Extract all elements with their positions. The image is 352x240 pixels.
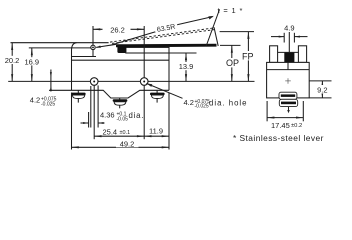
body seam line [267, 69, 310, 71]
svg-text:25.4: 25.4 [103, 127, 118, 136]
lever tip travel line [214, 27, 218, 46]
dim FP [247, 32, 249, 82]
lever left bent end corner arc [72, 43, 77, 51]
text 63.5R [154, 19, 179, 34]
plunger end (black) [284, 53, 294, 63]
text 9.2 [316, 85, 330, 94]
svg-text:20.2: 20.2 [5, 56, 20, 65]
svg-text:-0.025: -0.025 [195, 104, 209, 110]
OP extension line [220, 44, 241, 46]
dim 26.2 [93, 28, 144, 30]
dim 4.36 [81, 122, 89, 124]
hole right extension line (26.2 / 25.4) [143, 26, 145, 78]
svg-text:26.2: 26.2 [110, 25, 125, 34]
svg-text:t = 1 *: t = 1 * [218, 6, 244, 15]
lever bottom edge with 16.9 extension [29, 47, 93, 49]
dim 4.36 extensions [88, 112, 90, 128]
svg-text:11.9: 11.9 [149, 126, 163, 135]
svg-text:16.9: 16.9 [24, 57, 39, 66]
body right edge [168, 53, 170, 90]
terminal screws end-on lower [279, 99, 297, 106]
dim 25.4 [94, 135, 144, 137]
pivot extension line (26.2 left) [92, 26, 94, 57]
dim 13.9 extension (housing bar bottom) [169, 52, 197, 54]
svg-text:±0.1: ±0.1 [120, 130, 131, 136]
FP extension line [220, 31, 254, 33]
terminal screw right [156, 90, 158, 102]
dim 11.9 [144, 135, 169, 137]
pivot rivet [91, 45, 95, 49]
dim 9.2 [321, 81, 323, 98]
leader to right hole [146, 83, 182, 98]
dim 49.2 extensions [71, 93, 73, 150]
svg-text:dia. hole: dia. hole [209, 98, 247, 107]
svg-text:* Stainless-steel lever: * Stainless-steel lever [233, 133, 324, 143]
plunger housing bar [126, 47, 169, 53]
svg-text:4.2: 4.2 [184, 98, 194, 107]
svg-text:17.45: 17.45 [271, 121, 290, 130]
text 16.9 [23, 57, 42, 65]
mounting hole right [140, 78, 148, 86]
terminal screw middle [119, 98, 121, 108]
free-position lever lower edge (dashed) [112, 29, 216, 43]
centre mark [285, 80, 291, 82]
svg-text:4.9: 4.9 [284, 24, 294, 33]
svg-text:dia.: dia. [129, 111, 145, 120]
terminal screws end-on upper [279, 92, 297, 99]
text 49.2 [116, 140, 139, 148]
svg-text:49.2: 49.2 [120, 140, 135, 149]
63.5R leader line [111, 32, 156, 45]
text FP [241, 51, 256, 60]
text 13.9 [176, 62, 196, 70]
lever top edge line with 20.2 extension [11, 42, 109, 44]
svg-text:-0.025: -0.025 [41, 101, 55, 107]
svg-text:4.36: 4.36 [100, 111, 115, 120]
mounting hole centre line [8, 80, 254, 82]
hole left centre extension (25.4) [93, 85, 95, 139]
svg-text:FP: FP [242, 51, 254, 61]
mounting hole left [90, 78, 98, 86]
body top centre line [287, 62, 289, 69]
lever channel right plate [298, 46, 306, 63]
9.2 extension lines [309, 80, 331, 82]
body left edge [71, 51, 73, 91]
plunger centre line [288, 32, 290, 52]
dim 16.9 [31, 48, 33, 82]
lever blade (bold bar, operating position) [116, 44, 217, 48]
dim 17.45 [267, 117, 303, 119]
lever channel left plate [270, 46, 278, 63]
plunger (black) [117, 46, 126, 53]
svg-text:13.9: 13.9 [179, 62, 194, 71]
terminal blade tip [288, 107, 290, 111]
svg-text:OP: OP [226, 58, 239, 68]
text 26.2 [103, 25, 131, 34]
dim 13.9 [185, 53, 187, 81]
body step line under pivot [72, 56, 97, 58]
svg-text:±0.2: ±0.2 [291, 123, 302, 129]
end view body [267, 62, 310, 98]
dim 4.2 left (hole dia) arrows [50, 70, 52, 92]
dim 20.2 [11, 43, 13, 82]
dim 17.45 extensions [266, 101, 268, 121]
dim 4.9 [271, 36, 284, 38]
text OP [225, 58, 241, 67]
free-position lever upper edge (arrow + dashed) [96, 46, 101, 48]
dim OP [231, 45, 233, 81]
lever web line [278, 51, 299, 53]
dim 49.2 [72, 146, 170, 148]
t=1 leader line [206, 10, 220, 47]
terminal screw left [77, 90, 79, 102]
svg-text:9.2: 9.2 [317, 85, 327, 94]
body top edge [72, 59, 170, 61]
body bottom edge with middle recess [49, 90, 169, 98]
svg-text:-0.05: -0.05 [117, 117, 129, 123]
text 20.2 [3, 56, 22, 64]
svg-text:4.2: 4.2 [30, 96, 40, 105]
